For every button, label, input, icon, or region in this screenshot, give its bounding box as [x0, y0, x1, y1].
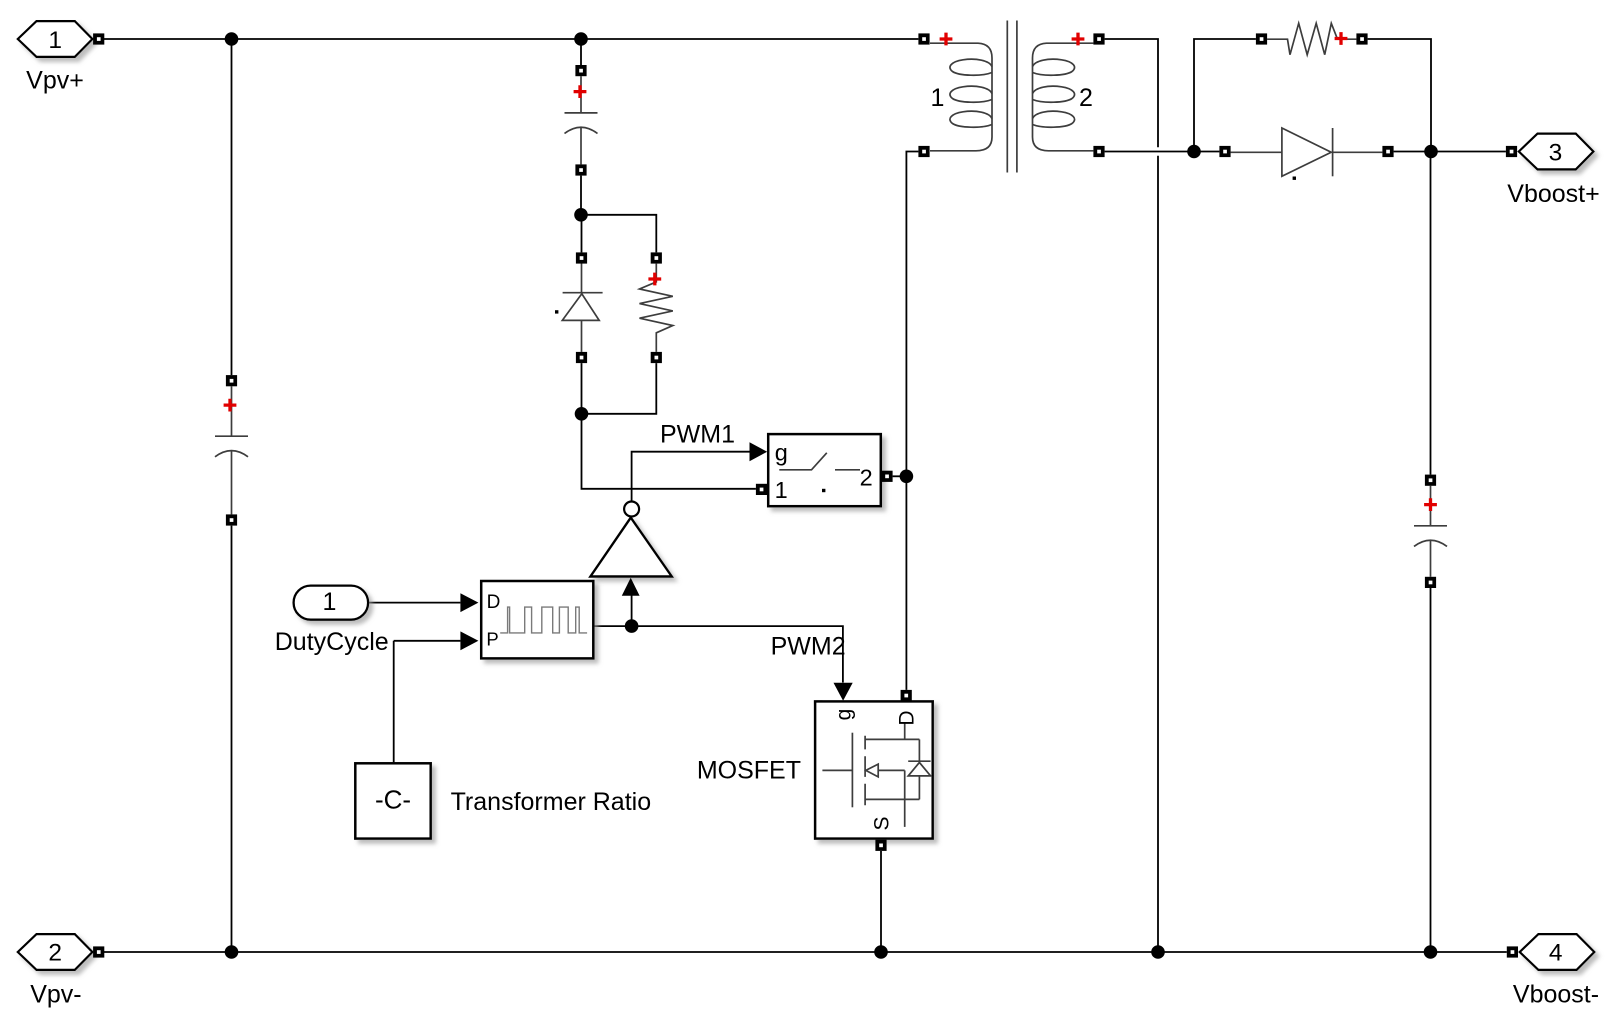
port 1 connector square — [93, 33, 104, 44]
switch U1 (ideal switch block) — [768, 434, 881, 506]
drain connection — [865, 738, 919, 740]
transformer T1 — [930, 21, 1093, 173]
primary loop 2 — [950, 86, 992, 102]
D1 top port — [576, 252, 587, 263]
D1 orientation dot — [555, 310, 558, 313]
svg-text:3: 3 — [1549, 140, 1563, 167]
diode D1 (clamp diode, cathode up) — [562, 263, 602, 352]
resistor R2 (snubber, horizontal) — [1267, 23, 1356, 54]
svg-text:Vboost+: Vboost+ — [1507, 180, 1599, 208]
D2 output port — [1382, 146, 1393, 157]
wire bottom rail — [104, 951, 1507, 953]
T1 primary + port — [918, 33, 929, 44]
svg-text:D: D — [487, 592, 501, 613]
svg-text:Vboost-: Vboost- — [1513, 980, 1599, 1008]
D2 orientation dot — [1293, 177, 1296, 180]
node: bottom rail / C1 — [225, 945, 239, 959]
body diode branch — [918, 739, 920, 761]
svg-text:2: 2 — [860, 464, 873, 490]
port 2 Vpv- hexagon — [18, 934, 93, 970]
node: bottom rail / MOSFET source — [874, 945, 888, 959]
switch input 1 port — [756, 484, 767, 495]
R1 bottom port — [651, 352, 662, 363]
capacitor C2 (clamp cap) — [565, 76, 598, 164]
wire transformer secondary-plus down right bus (gap at crossing) — [1105, 39, 1158, 952]
C1 plus mark — [224, 399, 237, 412]
D2 input port — [1219, 146, 1230, 157]
primary loop 3 — [950, 111, 992, 127]
svg-text:1: 1 — [931, 84, 945, 112]
svg-text:PWM1: PWM1 — [660, 421, 735, 449]
node: PWM output / NOT input — [625, 619, 639, 633]
gate plate — [851, 733, 853, 808]
T1 secondary - port — [1093, 146, 1104, 157]
svg-text:4: 4 — [1549, 939, 1563, 966]
svg-text:g: g — [833, 709, 856, 721]
wire PWM output to NOT gate and MOSFET gate — [593, 626, 843, 682]
T1 secondary + port — [1093, 33, 1104, 44]
svg-text:DutyCycle: DutyCycle — [275, 628, 389, 656]
D1 bottom port — [576, 352, 587, 363]
wire NOT gate output up to switch g — [632, 452, 750, 502]
wire C2 to node A — [580, 176, 582, 215]
svg-text:1: 1 — [48, 27, 62, 54]
node C: diode row / snubber — [1187, 145, 1201, 159]
wire constant to PWM P input — [394, 641, 461, 762]
node D: diode out / snubber right — [1424, 145, 1438, 159]
R2 plus mark — [1335, 32, 1348, 45]
R2 left port — [1256, 33, 1267, 44]
C2 plus mark — [574, 85, 587, 98]
svg-text:2: 2 — [48, 939, 62, 966]
wire D1 bottom to node B — [581, 363, 583, 414]
svg-text:g: g — [775, 439, 788, 465]
wire transformer secondary-minus to diode D2 — [1105, 151, 1220, 153]
MOSFET Q1 block — [815, 701, 933, 838]
port 3 Vboost+ hexagon — [1519, 134, 1594, 170]
primary loop 1 — [950, 59, 992, 75]
svg-text:P: P — [486, 629, 498, 650]
wire snubber branch up from node C — [1194, 39, 1256, 152]
node A: C2 / D1 / R1 — [574, 208, 588, 222]
C1 top port — [226, 375, 237, 386]
C3 bottom port — [1425, 577, 1436, 588]
svg-text:1: 1 — [775, 477, 788, 503]
port 1 Vpv+ hexagon — [18, 21, 93, 57]
wire transformer primary-minus to vertical bus — [906, 152, 918, 690]
R1 plus mark — [648, 273, 661, 286]
source connection — [865, 798, 919, 800]
svg-text:D: D — [896, 710, 919, 725]
node: bottom rail / C3 — [1424, 945, 1438, 959]
wire D2 output to port 3 — [1394, 151, 1506, 153]
wire switch output to vertical bus — [893, 475, 907, 477]
wire MOSFET source to bottom rail — [880, 851, 882, 952]
node B: D1 / R1 merge — [575, 407, 589, 421]
secondary loop 2 — [1033, 86, 1075, 102]
wire left vertical C1 to bottom rail — [231, 526, 233, 952]
source stem — [904, 770, 906, 827]
wire NOT gate input stem — [631, 596, 633, 627]
wire top rail Vpv+ — [104, 38, 918, 40]
svg-text:-C-: -C- — [375, 785, 411, 815]
arrow into MOSFET g input — [834, 683, 853, 701]
port 1 DutyCycle stadium — [294, 586, 369, 620]
R1 top port — [651, 252, 662, 263]
T1 primary - port — [918, 146, 929, 157]
C1 bottom port — [226, 514, 237, 525]
MOSFET S port — [875, 840, 886, 851]
T1 primary plus mark — [940, 33, 953, 46]
arrow into NOT gate input — [622, 578, 640, 596]
PWM generator block — [481, 581, 593, 658]
wire node A to diode D1 — [581, 215, 583, 253]
svg-text:Vpv+: Vpv+ — [26, 67, 84, 95]
core line right — [1016, 21, 1018, 173]
wire snubber resistor to node D — [1368, 39, 1431, 152]
T1 secondary plus mark — [1072, 33, 1085, 46]
svg-text:PWM2: PWM2 — [771, 633, 846, 661]
secondary loop 1 — [1033, 59, 1075, 75]
capacitor C3 (output cap) — [1414, 486, 1447, 577]
body arrow — [866, 764, 878, 777]
C3 plus mark — [1424, 498, 1437, 511]
wire port1 DutyCycle to PWM D input — [368, 602, 460, 604]
R2 right port — [1356, 33, 1367, 44]
svg-text:Vpv-: Vpv- — [30, 980, 81, 1008]
wire R1 bottom to node B — [582, 363, 657, 414]
diode D2 (output diode, horizontal) — [1231, 128, 1383, 176]
port 2 connector square — [93, 946, 104, 957]
MOSFET D port — [901, 690, 912, 701]
arrow into switch g input — [750, 442, 768, 461]
node: switch output / drain bus — [900, 470, 914, 484]
port 3 connector square — [1506, 146, 1517, 157]
constant -C- block — [355, 763, 430, 838]
svg-text:S: S — [871, 816, 894, 830]
wire C3 to bottom rail — [1430, 588, 1432, 952]
svg-text:1: 1 — [323, 588, 337, 616]
wire left vertical to C1 — [231, 39, 233, 375]
arrow into PWM P input — [460, 631, 478, 650]
NOT gate (logical operator) — [590, 502, 671, 577]
wire mid top to C2 — [580, 39, 582, 65]
wire node B down to switch input 1 — [582, 414, 756, 489]
secondary winding lead top — [1033, 43, 1094, 151]
node: top rail / C2 — [574, 32, 588, 46]
gate lead — [822, 769, 852, 771]
secondary loop 3 — [1033, 111, 1075, 127]
drain stem — [904, 724, 906, 740]
port 4 Vboost- hexagon — [1520, 934, 1595, 970]
switch output 2 port — [881, 471, 892, 482]
resistor R1 (clamp resistor, vertical) — [640, 264, 673, 352]
primary winding lead top — [930, 43, 992, 151]
node: bottom rail / secondary bus — [1151, 945, 1165, 959]
C2 top port — [575, 65, 586, 76]
node: top rail / C1 — [225, 32, 239, 46]
core line left — [1006, 21, 1008, 173]
wire node A branch right to R1 — [581, 215, 656, 253]
C3 top port — [1425, 475, 1436, 486]
channel dashes — [864, 736, 866, 806]
svg-text:Transformer Ratio: Transformer Ratio — [451, 788, 652, 816]
svg-text:MOSFET: MOSFET — [697, 757, 801, 785]
capacitor C1 (input cap) — [215, 386, 248, 514]
arrow into PWM D input — [460, 593, 478, 612]
wire node D down to C3 — [1430, 152, 1432, 475]
svg-text:2: 2 — [1079, 84, 1093, 112]
port 4 connector square — [1507, 946, 1518, 957]
C2 bottom port — [575, 164, 586, 175]
